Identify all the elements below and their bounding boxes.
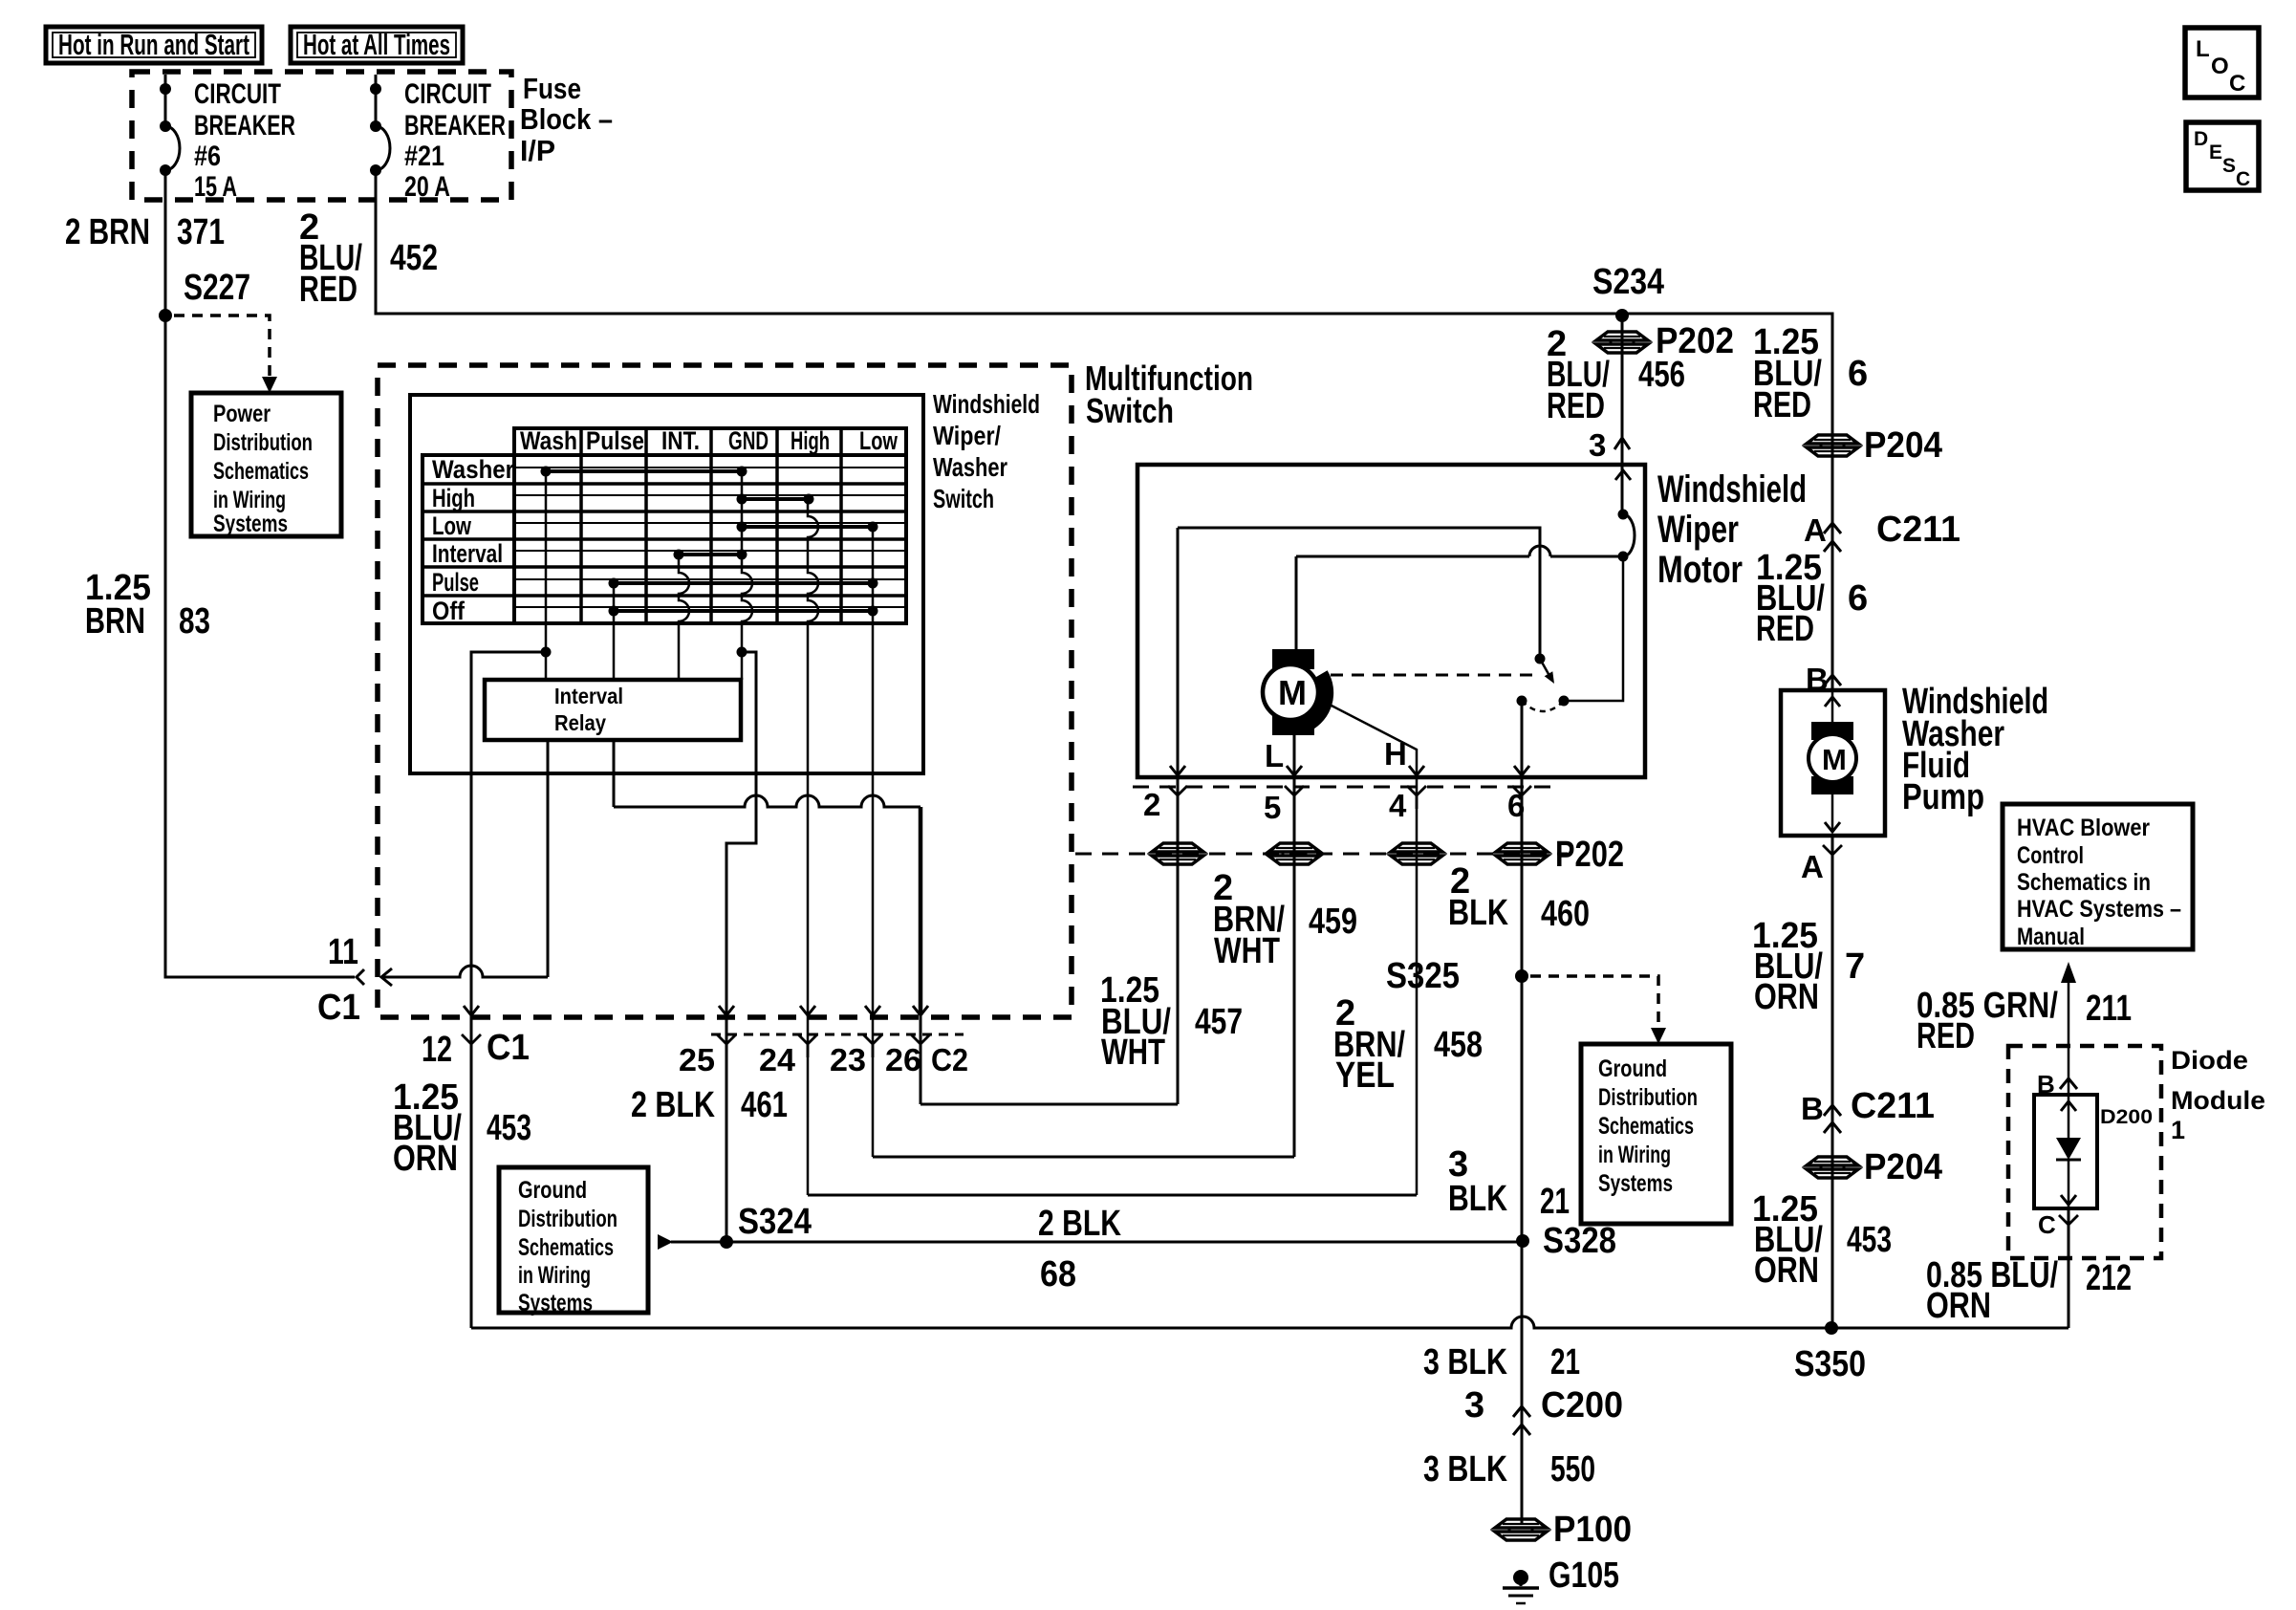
interval relay box [485,680,741,740]
svg-text:Interval: Interval [554,684,623,708]
svg-text:456: 456 [1638,355,1685,395]
svg-text:C211: C211 [1876,510,1960,550]
washer pump motor M symbol [1825,697,1840,707]
wire: circuit 371, 2 BRN, breaker #6 to S227 and down to 11 C1 [165,170,355,977]
svg-text:BREAKER: BREAKER [404,110,506,141]
switch table row track lines [514,467,906,468]
node S227 junction [159,309,172,322]
svg-text:1: 1 [2171,1116,2185,1144]
svg-text:C2: C2 [931,1042,968,1077]
wire: motor high output H to pin 4 [1330,705,1417,1195]
svg-text:550: 550 [1550,1449,1595,1490]
svg-text:Hot in Run and Start: Hot in Run and Start [58,28,249,61]
svg-text:12: 12 [422,1030,452,1070]
svg-text:3: 3 [1464,1385,1484,1425]
wire: park switch to motor pin 6 ground [1521,701,1524,1523]
svg-text:2 BLK: 2 BLK [1038,1204,1121,1244]
svg-text:Schematics: Schematics [518,1234,614,1261]
svg-text:RED: RED [299,270,357,310]
svg-text:453: 453 [1847,1220,1892,1260]
svg-text:Distribution: Distribution [1598,1084,1698,1111]
svg-text:#6: #6 [194,141,221,172]
svg-text:6: 6 [1848,354,1868,394]
wire: relay pulse output to pin 26 [613,740,616,807]
svg-text:BLK: BLK [1448,1179,1507,1219]
power feed label box: Hot in Run and Start [46,27,262,63]
svg-text:WHT: WHT [1101,1033,1165,1073]
svg-text:459: 459 [1309,902,1357,942]
svg-text:S234: S234 [1592,262,1664,302]
svg-text:RED: RED [1753,385,1811,425]
wire: motor pin 2 low-speed feed down [1177,528,1180,1104]
wiper/washer switch inner box [410,395,923,773]
svg-text:6: 6 [1848,578,1868,619]
svg-text:Control: Control [2017,842,2084,869]
high column wire with hop arcs [808,499,818,1195]
svg-text:211: 211 [2086,989,2132,1029]
svg-text:Hot at All Times: Hot at All Times [303,28,450,61]
connector P202 grommet row under wiper motor [1075,853,1568,856]
pulse column wire [613,583,616,680]
svg-text:68: 68 [1040,1254,1076,1295]
svg-text:Manual: Manual [2017,924,2085,950]
switch table body grid [422,455,906,623]
svg-text:O: O [2211,54,2229,79]
svg-text:7: 7 [1845,946,1865,987]
svg-text:C1: C1 [487,1028,530,1068]
svg-text:Switch: Switch [933,484,994,513]
svg-text:L: L [2196,36,2210,62]
svg-text:YEL: YEL [1335,1055,1395,1096]
low row contact bridge [742,525,873,529]
svg-text:Block –: Block – [520,102,613,136]
wash column wire [545,471,548,680]
circuit breaker #21 (20 A) [375,75,378,126]
svg-text:25: 25 [679,1042,715,1077]
svg-text:371: 371 [177,212,225,252]
arrow from left ground distribution box to S324 [658,1234,673,1250]
svg-text:E: E [2209,141,2222,163]
wire: circuit 21 3 BLK S325 through S328 to C200 [1521,976,1524,1523]
svg-text:3 BLK: 3 BLK [1423,1342,1507,1382]
svg-text:A: A [1801,849,1824,884]
pulse row contact bridge [614,581,873,585]
svg-text:453: 453 [487,1108,531,1148]
reference box LOC [2185,28,2259,98]
pin 12 C1 connector [464,1006,479,1015]
svg-text:24: 24 [759,1042,796,1077]
svg-text:ORN: ORN [393,1139,458,1179]
wire: motor low output L to pin 5 [1293,735,1296,1157]
svg-text:CIRCUIT: CIRCUIT [404,78,491,110]
gnd column wire with hop arcs [742,471,752,680]
svg-text:Off: Off [432,597,466,625]
svg-text:C1: C1 [317,988,360,1028]
svg-text:5: 5 [1264,790,1281,825]
svg-text:P202: P202 [1555,835,1624,875]
dashed mechanical link motor to park switch [1331,674,1541,677]
svg-text:P204: P204 [1864,1147,1942,1187]
svg-text:Schematics: Schematics [213,458,309,485]
svg-text:Wiper/: Wiper/ [933,421,1001,450]
svg-text:D200: D200 [2100,1106,2153,1128]
svg-text:High: High [432,484,475,512]
info box: Ground Distribution Schematics in Wiring Systems (right) [1581,1044,1731,1224]
svg-text:Schematics: Schematics [1598,1113,1694,1140]
wire: circuit 456, 2 BLU/RED, S234 to wiper motor pin 3 [1621,315,1624,514]
svg-text:D: D [2194,128,2208,150]
svg-text:M: M [1822,743,1847,776]
svg-text:Pulse: Pulse [432,568,479,597]
node S234 junction [1615,309,1629,322]
connector P204 grommet upper [1807,435,1858,444]
wire: motor low-speed feed (pin 2) to park switch arm [1178,528,1540,659]
svg-text:457: 457 [1195,1002,1243,1042]
svg-text:Pump: Pump [1902,777,1984,817]
svg-text:ORN: ORN [1754,1251,1819,1291]
park switch park contact [1517,696,1527,707]
info box: HVAC Blower Control Schematics in HVAC Systems - Manual [2003,804,2193,949]
power feed label box: Hot at All Times [291,27,463,63]
svg-text:C: C [2236,168,2250,190]
node S328 junction [1516,1234,1529,1248]
svg-text:INT.: INT. [661,426,700,455]
svg-text:3 BLK: 3 BLK [1423,1449,1507,1490]
wire: circuit 7 then 453, 1.25 BLU/ORN, pump to S350 [1831,836,1834,1328]
park switch run contact [1559,696,1570,707]
svg-text:26: 26 [885,1042,921,1077]
int column wire with hop arcs [679,555,689,680]
svg-text:High: High [791,426,830,455]
washer row contact bridge [546,469,742,473]
svg-text:2: 2 [1143,787,1160,822]
svg-text:Windshield: Windshield [933,389,1040,419]
svg-text:GND: GND [728,426,769,455]
svg-text:CIRCUIT: CIRCUIT [194,78,281,110]
svg-text:212: 212 [2086,1258,2132,1298]
wiper motor M symbol [1272,649,1314,669]
diode D200 box [2034,1095,2097,1208]
wire: circuit 212 0.85 BLU/ORN diode module to S350 [2068,1208,2070,1328]
multifunction switch dashed box [378,365,1072,1017]
svg-text:Schematics in: Schematics in [2017,869,2151,896]
svg-text:Power: Power [213,401,271,427]
svg-text:in Wiring: in Wiring [1598,1142,1671,1168]
svg-text:C: C [2229,71,2245,97]
svg-text:11: 11 [328,932,358,972]
svg-text:BRN: BRN [85,601,145,642]
svg-text:460: 460 [1541,894,1590,934]
svg-text:Low: Low [859,426,899,455]
connector C2 pins 25 24 23 26 [711,1033,964,1036]
svg-text:M: M [1278,673,1307,712]
svg-text:C200: C200 [1541,1385,1623,1425]
wire: park switch common from pin 3 contact [1623,514,1635,556]
svg-text:458: 458 [1434,1025,1483,1065]
svg-text:S324: S324 [738,1202,812,1242]
svg-text:C211: C211 [1851,1086,1935,1126]
svg-text:S328: S328 [1543,1221,1616,1261]
svg-text:L: L [1265,738,1284,773]
connector P202 grommet on circuit 456 [1596,332,1648,340]
svg-text:Distribution: Distribution [518,1206,617,1232]
svg-text:Windshield: Windshield [1657,468,1807,511]
svg-text:Switch: Switch [1086,391,1174,430]
wire: motor armature top to park switch feed [1295,556,1298,650]
svg-text:A: A [1804,512,1827,548]
node S350 junction [1825,1321,1838,1335]
node S324 junction [720,1235,733,1249]
node S325 junction [1515,969,1528,983]
svg-text:B: B [1801,1091,1824,1126]
fuse block dashed box: Fuse Block - I/P [132,72,511,200]
svg-text:P100: P100 [1553,1510,1632,1550]
svg-text:RED: RED [1917,1016,1975,1056]
svg-text:Fuse: Fuse [523,72,581,105]
svg-text:BLK: BLK [1448,893,1508,933]
svg-text:BREAKER: BREAKER [194,110,295,141]
svg-text:Interval: Interval [432,539,503,568]
svg-text:Systems: Systems [1598,1170,1673,1197]
windshield washer fluid pump box [1781,690,1885,836]
svg-text:C: C [2038,1210,2056,1239]
wire: circuit 459 2 BRN/WHT pin 23 to motor pin 5 [873,1156,1294,1159]
diode module dashed box [2008,1046,2161,1258]
svg-text:Motor: Motor [1657,549,1743,591]
dashed reference from S325 to ground distribution box [1530,976,1658,1027]
connector P100 grommet [1495,1519,1547,1528]
svg-text:Systems: Systems [518,1290,593,1316]
svg-text:2 BLK: 2 BLK [631,1085,715,1125]
svg-text:Ground: Ground [1598,1055,1667,1082]
svg-text:S227: S227 [184,268,250,308]
wire: relay wash terminal to 11 C1 feed [547,740,550,977]
svg-text:HVAC Blower: HVAC Blower [2017,815,2150,841]
reference box DESC [2186,122,2259,190]
svg-text:Wiper: Wiper [1657,509,1739,551]
wire: circuit 211 0.85 GRN/RED diode module to HVAC [2068,983,2070,1095]
svg-text:Low: Low [432,511,472,540]
svg-text:21: 21 [1550,1342,1580,1382]
svg-text:4: 4 [1389,788,1407,823]
svg-text:Washer: Washer [432,455,514,484]
info box: Power Distribution Schematics in Wiring Systems [191,393,341,536]
svg-text:461: 461 [741,1085,788,1125]
wiper motor connector line C with pins 2 5 4 6 [1133,786,1554,789]
diode D200 symbol [2061,1101,2076,1111]
svg-text:20 A: 20 A [404,171,450,203]
svg-text:in Wiring: in Wiring [518,1262,591,1289]
svg-text:Diode: Diode [2171,1046,2248,1075]
switch table header row [514,428,906,455]
svg-text:S325: S325 [1386,956,1460,996]
svg-text:Module: Module [2171,1086,2265,1115]
connector P204 grommet lower [1807,1157,1858,1165]
svg-text:P204: P204 [1864,425,1942,466]
circuit breaker #6 (15 A) [164,75,167,126]
info box: Ground Distribution Schematics in Wiring Systems (left) [499,1167,648,1313]
wire: circuit 452, 2 BLU/RED, breaker #21 to S234 and P204 [376,170,1832,690]
svg-text:Relay: Relay [554,710,606,735]
svg-text:Washer: Washer [933,452,1007,482]
svg-text:6: 6 [1507,788,1525,823]
wire: gnd output jog to pin 25 [726,652,756,1242]
wire: wash output junction to 12 C1 [471,652,546,1328]
svg-text:RED: RED [1547,386,1605,426]
wire: S350 ground bus from 12 C1 to diode module [471,1316,2069,1328]
park switch moving contact [1535,654,1546,664]
svg-text:HVAC Systems –: HVAC Systems – [2017,896,2181,923]
svg-text:15 A: 15 A [194,171,237,203]
svg-text:ORN: ORN [1754,977,1819,1017]
svg-text:#21: #21 [404,141,444,172]
svg-text:2 BRN: 2 BRN [65,212,150,252]
ground G105 [1513,1570,1528,1585]
svg-text:in Wiring: in Wiring [213,487,286,513]
svg-text:452: 452 [390,238,438,278]
off row contact bridge [614,609,873,613]
svg-text:G105: G105 [1549,1556,1619,1596]
svg-text:H: H [1384,736,1407,772]
svg-text:ORN: ORN [1926,1286,1991,1326]
wire: circuit 68 2 BLK S324 to S328 [726,1241,1523,1244]
svg-text:Distribution: Distribution [213,429,313,456]
svg-text:Systems: Systems [213,511,288,537]
svg-text:Pulse: Pulse [586,426,644,455]
interval row contact bridge [679,553,742,556]
svg-text:Ground: Ground [518,1177,587,1204]
svg-text:83: 83 [179,601,210,642]
wire: circuit 458 2 BRN/YEL pin 24 to motor pin 4 [808,1194,1417,1197]
svg-text:S: S [2222,155,2236,177]
svg-text:3: 3 [1589,427,1606,463]
low column wire [872,527,875,1157]
dashed reference from S227 to Power Distribution box [174,315,270,376]
high row contact bridge [742,497,809,501]
svg-text:S350: S350 [1794,1344,1866,1384]
wire: circuit 457 1.25 BLU/WHT pin 26 to motor pin 2 [921,1103,1178,1106]
svg-text:I/P: I/P [520,134,555,167]
svg-text:23: 23 [830,1042,866,1077]
svg-text:21: 21 [1540,1182,1570,1222]
arrow to HVAC blower control box [2061,962,2076,983]
svg-text:RED: RED [1756,609,1814,649]
svg-text:Wash: Wash [520,426,577,455]
windshield wiper motor box [1137,465,1645,777]
svg-text:WHT: WHT [1214,931,1280,971]
